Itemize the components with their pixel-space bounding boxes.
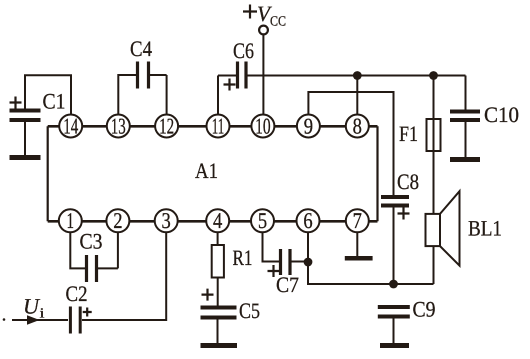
power terminal +Vcc	[259, 26, 268, 35]
wire: C1 top link to pin 14	[25, 75, 71, 114]
capacitor C9	[378, 307, 410, 343]
svg-text:6: 6	[303, 208, 312, 233]
capacitor C10	[450, 112, 480, 158]
pin 4	[206, 208, 229, 233]
svg-text:C7: C7	[276, 272, 299, 297]
wire: pin 3 down to C2	[82, 232, 166, 320]
wire: supply rail from C6 to C10	[246, 75, 466, 77]
svg-text:8: 8	[353, 113, 362, 138]
svg-text:9: 9	[304, 113, 313, 138]
wire: speaker bottom down to bus	[433, 246, 435, 284]
wire: pin 9 bracket to C8	[308, 92, 393, 195]
fuse F1	[427, 76, 441, 152]
svg-text:2: 2	[113, 208, 122, 233]
polarity + of C2	[83, 308, 92, 317]
svg-text:14: 14	[63, 113, 78, 138]
power label +Vcc	[243, 1, 286, 30]
wire: C10 drop from rail	[465, 76, 467, 110]
svg-text:C10: C10	[484, 102, 519, 127]
wire: F1 to speaker	[433, 151, 435, 214]
svg-text:C8: C8	[397, 169, 419, 194]
wire: pin 5 to C7	[263, 232, 281, 261]
pin 6	[297, 208, 320, 233]
polarity + of C7	[268, 265, 280, 277]
wire: pin 4 to R1	[217, 232, 219, 245]
IC A1	[48, 126, 378, 221]
wire: Vcc down to pin 10	[262, 35, 264, 115]
wire: C7 to pin 6 node	[290, 261, 308, 263]
svg-text:U: U	[23, 294, 41, 319]
capacitor C3	[87, 255, 97, 282]
capacitor C6	[238, 62, 247, 89]
svg-text:3: 3	[162, 208, 171, 233]
pin 1	[59, 208, 82, 233]
capacitor C2	[70, 307, 80, 334]
svg-text:1: 1	[67, 208, 75, 233]
svg-text:10: 10	[255, 113, 271, 138]
pin 14	[59, 113, 82, 138]
node junction (F1 / rail)	[429, 71, 438, 80]
node junction (C8-C9 / bus)	[389, 280, 398, 289]
resistor R1	[212, 245, 224, 278]
wire: pin 11 up to C6	[218, 76, 238, 115]
node junction (C7 / pin 6)	[304, 258, 313, 267]
node junction (pin 8 / rail)	[353, 71, 362, 80]
polarity + of C8	[398, 208, 410, 220]
wire: R1 to C5	[217, 278, 219, 306]
wire: pin 8 up to rail	[356, 76, 358, 115]
svg-text:11: 11	[212, 113, 225, 138]
ground (C10)	[450, 157, 480, 162]
ground (C1)	[10, 155, 41, 160]
speaker BL1	[426, 191, 460, 265]
polarity + of C1	[10, 97, 22, 109]
wire: input line with arrow	[12, 315, 68, 324]
svg-text:C5: C5	[239, 298, 260, 323]
pin 8	[346, 113, 369, 138]
ground (C9)	[380, 343, 409, 348]
svg-text:C3: C3	[80, 229, 103, 254]
svg-text:5: 5	[258, 208, 267, 233]
wire: pin 7 to ground	[356, 232, 358, 256]
pin 2	[106, 208, 129, 233]
wire: pin 6 down and bottom bus to speaker	[308, 232, 434, 284]
input terminal Ui	[23, 294, 45, 322]
svg-text:C2: C2	[66, 281, 88, 306]
svg-text:C1: C1	[43, 89, 66, 114]
svg-text:7: 7	[353, 208, 362, 233]
svg-text:C6: C6	[233, 38, 254, 63]
ground (pin 7)	[345, 256, 373, 261]
pin 13	[107, 113, 130, 138]
svg-text:BL1: BL1	[468, 216, 502, 241]
pin 3	[155, 208, 178, 233]
pin 11	[207, 113, 230, 138]
stray dot	[3, 318, 6, 321]
capacitor C1	[10, 111, 41, 156]
svg-text:C9: C9	[413, 297, 436, 322]
capacitor C4	[138, 62, 149, 89]
wire: C3 bridge from pin 1 to pin 2	[70, 232, 118, 268]
svg-text:12: 12	[159, 113, 174, 138]
svg-text:C4: C4	[130, 36, 152, 61]
pin 7	[346, 208, 369, 233]
capacitor C5	[201, 308, 237, 344]
pin 12	[155, 113, 178, 138]
svg-text:CC: CC	[270, 15, 286, 30]
pin 10	[251, 113, 274, 138]
pin 9	[297, 113, 320, 138]
svg-text:4: 4	[213, 208, 222, 233]
polarity + of C6	[224, 79, 236, 91]
wire: C4 bridge from pin 13 to pin 12	[118, 75, 166, 115]
capacitor C8	[381, 197, 409, 284]
polarity + of C5	[202, 289, 214, 301]
svg-text:R1: R1	[233, 245, 253, 270]
svg-text:F1: F1	[399, 121, 418, 146]
pin 5	[251, 208, 274, 233]
capacitor C7	[281, 249, 291, 275]
svg-text:13: 13	[111, 113, 126, 138]
svg-text:A1: A1	[195, 158, 218, 183]
ground (C5)	[201, 343, 238, 348]
